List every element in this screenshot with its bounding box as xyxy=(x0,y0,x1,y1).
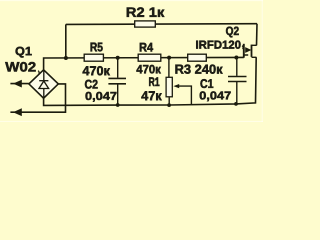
resistor R3 xyxy=(188,54,207,61)
label R3 value xyxy=(175,65,222,74)
node top-left junction xyxy=(64,56,68,60)
label R4 value xyxy=(136,65,160,74)
arrow AC terminal left xyxy=(13,80,22,88)
label Q1 xyxy=(16,47,32,58)
node C1 bottom xyxy=(234,102,238,106)
label C1 value xyxy=(200,91,231,101)
trimmer resistor R1 xyxy=(166,58,191,106)
label R5 xyxy=(91,43,103,52)
label R4 xyxy=(140,43,153,52)
node C1 top xyxy=(234,55,238,59)
drain lead xyxy=(252,44,257,46)
label R2 value xyxy=(127,7,165,16)
capacitor C1 xyxy=(228,58,247,105)
label R1 value xyxy=(141,91,161,100)
comma mark after IRFD120 xyxy=(242,46,243,49)
wire AC1 stub at bridge left vertex xyxy=(10,83,29,85)
wire left vertical drop xyxy=(65,24,67,57)
label C2 xyxy=(85,80,98,89)
gate bar xyxy=(243,44,245,58)
node C2 top xyxy=(116,56,120,60)
substrate arrow xyxy=(245,47,251,53)
wire top rail xyxy=(66,23,257,26)
label C2 value xyxy=(86,92,117,102)
label Q2 type xyxy=(196,41,240,49)
source lead xyxy=(252,56,257,58)
diode inside bridge xyxy=(39,71,49,98)
label C1 xyxy=(200,79,213,88)
resistor R4 xyxy=(138,54,161,61)
R1 wiper arrow xyxy=(173,84,179,88)
label R1 xyxy=(149,77,159,86)
label R5 value xyxy=(83,66,110,75)
junction dots xyxy=(64,55,239,107)
substrate stub xyxy=(244,54,248,56)
MOSFET Q2 xyxy=(242,44,257,58)
resistor R5 xyxy=(84,54,103,61)
wire bottom rail from bridge bottom to Q2 source xyxy=(44,57,257,105)
node R1 top xyxy=(167,56,171,60)
arrow AC terminal bottom xyxy=(13,108,22,116)
capacitor C2 xyxy=(108,58,126,106)
label Q2 xyxy=(226,27,239,38)
resistor R2 xyxy=(135,21,156,27)
node C2 bottom xyxy=(116,103,120,107)
node R1 bottom xyxy=(167,103,171,107)
bridge rectifier Q1 diamond xyxy=(29,70,58,98)
label W02 xyxy=(5,62,35,72)
W02 comma speck xyxy=(38,71,39,74)
wire AC2: bridge right vertex to bottom terminal xyxy=(10,84,65,112)
wire middle rail with bridge stub xyxy=(44,57,244,69)
wire right vertical: top rail to Q2 drain xyxy=(256,24,259,46)
channel bar xyxy=(251,45,253,57)
